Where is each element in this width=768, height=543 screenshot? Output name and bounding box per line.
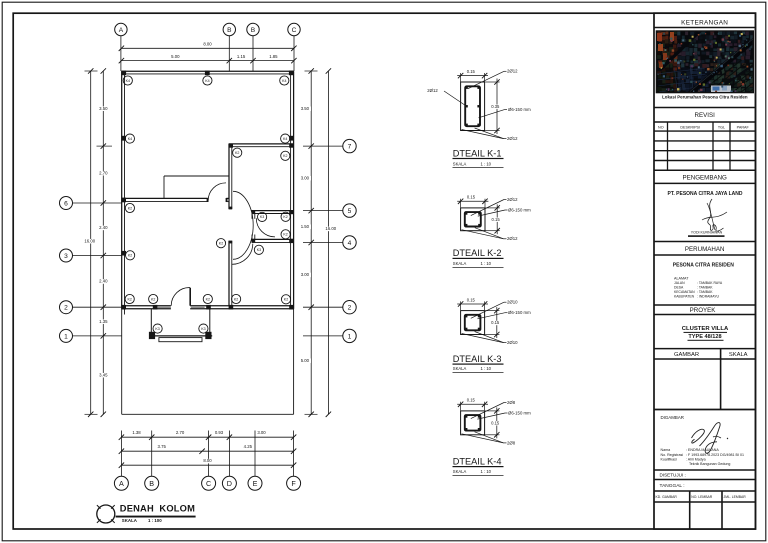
- column K4 at top wall / grid C: [289, 71, 294, 76]
- svg-text:3.50: 3.50: [99, 106, 108, 111]
- dimension line 5.00 / 1.15 / 1.85 (top): [121, 60, 294, 62]
- svg-text:1.38: 1.38: [132, 430, 141, 435]
- detail DTEAIL K-1: rebar dots (6 bars): [465, 87, 467, 89]
- left dimension extension stubs: [85, 70, 98, 72]
- svg-text:2Ø12: 2Ø12: [507, 197, 518, 202]
- grid bubble 7 (right): [343, 139, 356, 152]
- svg-text:TYPE 48/128: TYPE 48/128: [688, 334, 721, 340]
- leader lines from left bubbles: [73, 202, 122, 204]
- svg-text:SKALA: SKALA: [453, 469, 467, 474]
- door swing: hall double arc (ellipse): [233, 191, 253, 259]
- door swing: front door: [171, 288, 190, 306]
- svg-text:K3: K3: [201, 327, 205, 331]
- grid bubble 3 (left): [60, 249, 73, 262]
- north/compass symbol: [97, 505, 115, 523]
- map: green roof diagonal lines: [712, 60, 760, 106]
- stair/nook outline in left room: [164, 175, 229, 177]
- svg-text:2Ø10: 2Ø10: [507, 300, 518, 305]
- grid bubble D (bottom): [222, 476, 236, 490]
- svg-text:K3: K3: [155, 327, 159, 331]
- svg-text:K2: K2: [235, 151, 239, 155]
- svg-text:1.50: 1.50: [301, 224, 310, 229]
- svg-text:K2: K2: [151, 297, 155, 301]
- svg-text:1: 1: [64, 333, 68, 340]
- detail DTEAIL K-3: bottom bar label 2&#216;10: [462, 334, 504, 343]
- column K2 on front wall (right of door): [206, 305, 211, 310]
- svg-text:2.70: 2.70: [176, 430, 185, 435]
- gambar/skala divider: [720, 349, 722, 410]
- detail DTEAIL K-2: top dimension 0.15: [457, 200, 488, 202]
- svg-text:0.15: 0.15: [467, 398, 476, 403]
- door swing: grid-6 door into top-left room: [208, 183, 226, 201]
- grid bubble B (top, first): [223, 23, 235, 35]
- svg-text:K2: K2: [283, 154, 287, 158]
- svg-text:0.15: 0.15: [467, 69, 476, 74]
- svg-text:K3: K3: [257, 248, 261, 252]
- svg-text:TGL: TGL: [718, 126, 725, 130]
- door swing: bathroom door: [256, 218, 275, 237]
- detail DTEAIL K-2: rebar dots: [465, 212, 467, 214]
- column K2 left of hall wall lower cap: [216, 239, 225, 248]
- svg-text:3: 3: [64, 253, 68, 260]
- svg-text:1.15: 1.15: [237, 54, 246, 59]
- svg-text:0.15: 0.15: [491, 420, 500, 425]
- svg-text:K4: K4: [126, 79, 130, 83]
- grid bubble 4 (right): [343, 236, 356, 249]
- grid bubble B (bottom): [145, 476, 159, 490]
- title block outer box: [654, 13, 755, 529]
- svg-text:3.00: 3.00: [301, 272, 310, 277]
- svg-text:1.35: 1.35: [99, 319, 108, 324]
- svg-text:2Ø12: 2Ø12: [427, 88, 438, 93]
- detail DTEAIL K-4: right dimension 0.15: [496, 407, 498, 438]
- svg-text:TANGGAL :: TANGGAL :: [660, 483, 685, 489]
- detail DTEAIL K-1: concrete outline: [461, 82, 485, 131]
- grid bubble 6 (left): [60, 197, 73, 210]
- grid bubble C (bottom): [202, 476, 216, 490]
- left overall dimension line 16.00: [90, 71, 92, 414]
- svg-text:16.00: 16.00: [84, 238, 95, 243]
- wall: grid 6 interior (left room partition): [122, 197, 208, 199]
- wall: right exterior: [293, 71, 295, 309]
- wall: bathroom top (grid 5): [252, 210, 294, 212]
- svg-text:2Ø8: 2Ø8: [507, 400, 516, 405]
- svg-text:2: 2: [64, 305, 68, 312]
- svg-text:Ø6-150 mm: Ø6-150 mm: [508, 107, 531, 112]
- column K4 at top wall / grid A: [121, 71, 126, 76]
- svg-text:E: E: [253, 479, 258, 488]
- map: diagonal main road: [688, 36, 759, 95]
- svg-text:0.15: 0.15: [491, 320, 500, 325]
- detail DTEAIL K-3: right dimension 0.15: [496, 307, 498, 338]
- svg-text:K2: K2: [206, 297, 210, 301]
- map: navy field strip lines: [657, 64, 708, 96]
- svg-text:REVISI: REVISI: [695, 112, 716, 119]
- svg-text:2Ø12: 2Ø12: [507, 136, 518, 141]
- svg-text:K2: K2: [128, 206, 132, 210]
- svg-text:0.15: 0.15: [467, 297, 476, 302]
- svg-text:2Ø12: 2Ø12: [507, 236, 518, 241]
- svg-text:2.70: 2.70: [99, 170, 108, 175]
- grid bubble 1 (right): [343, 329, 356, 342]
- svg-text:4.25: 4.25: [244, 444, 253, 449]
- svg-text:: ENDRA MAULANA: : ENDRA MAULANA: [686, 448, 719, 452]
- svg-text:KD. GAMBAR: KD. GAMBAR: [656, 495, 678, 499]
- detail DTEAIL K-2: stirrup: [465, 212, 481, 226]
- svg-text:DTEAIL K-1: DTEAIL K-1: [453, 148, 502, 158]
- svg-text:SKALA: SKALA: [453, 161, 467, 166]
- svg-text:F: F: [291, 479, 296, 488]
- svg-text:1 : 10: 1 : 10: [481, 366, 492, 371]
- grid bubble A (bottom): [114, 476, 128, 490]
- wall notch below left front corner: [124, 309, 126, 315]
- svg-text:2.40: 2.40: [99, 225, 108, 230]
- svg-text:SKALA: SKALA: [729, 352, 748, 358]
- detail DTEAIL K-2: bottom bar label 2&#216;12: [462, 230, 504, 239]
- svg-text:DTEAIL K-4: DTEAIL K-4: [453, 456, 502, 466]
- detail DTEAIL K-4: rebar dots: [465, 415, 467, 417]
- leader lines from right bubbles: [303, 145, 343, 147]
- map: scatter noise dots: [658, 33, 753, 93]
- detail DTEAIL K-1: top bar label 2&#216;12: [468, 71, 504, 89]
- wall: hallway vertical lower segment (grid B): [228, 241, 230, 306]
- svg-text:K4: K4: [205, 79, 209, 83]
- column K2 at left front corner: [121, 305, 126, 310]
- right overall dimension line 16.00: [327, 71, 329, 414]
- svg-text:K2: K2: [127, 297, 131, 301]
- svg-text:NO. LEMBAR: NO. LEMBAR: [691, 495, 712, 499]
- svg-text:K2: K2: [284, 298, 288, 302]
- svg-text:K4: K4: [128, 137, 132, 141]
- svg-text:1: 1: [348, 333, 352, 340]
- map: bright red roofs re-accent: [657, 33, 662, 41]
- svg-text:B: B: [149, 479, 154, 488]
- svg-text:DESA: DESA: [674, 285, 684, 289]
- grid bubble E (bottom): [248, 476, 262, 490]
- svg-text:7: 7: [348, 143, 352, 150]
- svg-text:Nama: Nama: [661, 448, 671, 452]
- svg-text:JALAN: JALAN: [674, 281, 685, 285]
- column K2 at left wall / grid 6: [121, 198, 126, 203]
- column K2 at hall wall / front wall junction: [229, 305, 234, 310]
- svg-text:K4: K4: [282, 79, 286, 83]
- svg-text:DESKRIPSI: DESKRIPSI: [680, 126, 700, 130]
- right dimension values: [299, 106, 311, 111]
- column K2 at grid-7 wall left end: [229, 144, 233, 148]
- wall end caps at grid-6 door opening: [207, 198, 209, 202]
- detail DTEAIL K-1: right dimension 0.35: [496, 79, 498, 135]
- extension lines from top bubbles: [120, 36, 122, 71]
- svg-text:1 : 10: 1 : 10: [481, 469, 492, 474]
- svg-text:DIGAMBAR: DIGAMBAR: [661, 415, 684, 420]
- svg-text:Ø6-150 mm: Ø6-150 mm: [508, 310, 531, 315]
- svg-text:0.35: 0.35: [491, 104, 500, 109]
- column K4 on right wall: [289, 136, 294, 141]
- svg-text:0.15: 0.15: [467, 195, 476, 200]
- column K3 at porch left: [153, 324, 162, 333]
- detail DTEAIL K-1: stirrup label: [479, 110, 505, 118]
- svg-text:Lokasi Perumahan Pesona Cit: Lokasi Perumahan Pesona Citra Residen: [662, 94, 748, 99]
- svg-text:3.45: 3.45: [99, 372, 108, 377]
- svg-text:SKALA: SKALA: [122, 518, 138, 523]
- svg-text:8.00: 8.00: [203, 458, 212, 463]
- detail DTEAIL K-3: stirrup label: [477, 313, 505, 319]
- detail DTEAIL K-3: top bar label 2&#216;10: [471, 302, 504, 318]
- svg-text:5.00: 5.00: [171, 54, 180, 59]
- grid bubble 5 (right): [343, 204, 356, 217]
- detail DTEAIL K-3: stirrup: [465, 315, 481, 331]
- svg-text:: INDRAMAYU: : INDRAMAYU: [697, 295, 720, 299]
- map: mosaic cells: [657, 31, 754, 97]
- detail DTEAIL K-3: concrete outline: [461, 311, 485, 335]
- svg-text:2Ø8: 2Ø8: [507, 440, 516, 445]
- detail DTEAIL K-1: stirrup: [465, 86, 480, 126]
- svg-text:0.15: 0.15: [492, 217, 501, 222]
- svg-text:PT. PESONA CITRA JAYA LAND: PT. PESONA CITRA JAYA LAND: [668, 191, 743, 197]
- svg-text:A: A: [119, 479, 124, 488]
- svg-text:0.93: 0.93: [215, 430, 224, 435]
- svg-text:5: 5: [348, 208, 352, 215]
- column K3 at bathroom top-left: [258, 212, 267, 221]
- wall caps bathroom left: [252, 210, 256, 214]
- detail DTEAIL K-2: top bar label 2&#216;12: [471, 200, 504, 216]
- detail DTEAIL K-3: top dimension 0.15: [457, 303, 488, 305]
- svg-text:2Ø10: 2Ø10: [507, 340, 518, 345]
- svg-text:K2: K2: [234, 297, 238, 301]
- sheet number column dividers: [689, 491, 691, 529]
- left segment dimension line: [102, 71, 104, 414]
- svg-text:: F 1993.68978.2023 DG/4981 BI: : F 1993.68978.2023 DG/4981 BI 01: [686, 453, 744, 457]
- column K2 at right wall / grid 7: [289, 144, 294, 148]
- wall: top exterior (grid A-C): [121, 70, 294, 72]
- detail DTEAIL K-2: right dimension 0.15: [496, 204, 498, 234]
- detail DTEAIL K-1: bottom bar label 2&#216;12: [462, 130, 504, 139]
- svg-text:No. Registrasi: No. Registrasi: [661, 453, 684, 457]
- svg-text:DENAH KOLOM: DENAH KOLOM: [120, 503, 195, 513]
- grid bubble B (top, second): [247, 23, 259, 35]
- svg-text:B: B: [251, 27, 256, 34]
- svg-text:6: 6: [64, 200, 68, 207]
- svg-text:B: B: [227, 27, 232, 34]
- svg-text:D: D: [227, 479, 232, 488]
- grid bubble C (top): [288, 23, 300, 35]
- wall: left exterior: [121, 71, 123, 309]
- detail DTEAIL K-4: concrete outline: [461, 411, 485, 435]
- grid bubble 1 (left): [60, 329, 73, 342]
- dimension line 8.00 (top overall): [121, 47, 294, 49]
- detail DTEAIL K-2: stirrup label: [478, 210, 505, 216]
- svg-text:PENGEMBANG: PENGEMBANG: [683, 175, 728, 182]
- right segment dimension line: [310, 71, 312, 414]
- column K2 on front wall (left of door): [153, 305, 158, 310]
- bottom dimension line row 1: 1.38/2.70/0.93/3.00: [121, 436, 293, 438]
- svg-text:PESONA CITRA RESIDEN: PESONA CITRA RESIDEN: [673, 262, 734, 268]
- porch front edge: [149, 335, 212, 337]
- svg-text:3.50: 3.50: [301, 106, 310, 111]
- revision table empty rows: [654, 140, 755, 142]
- svg-text:2Ø12: 2Ø12: [507, 69, 518, 74]
- svg-text:K2: K2: [219, 242, 223, 246]
- column K2 at left wall / grid 3: [121, 251, 126, 256]
- wall: bathroom left stubs with door opening: [251, 214, 253, 219]
- detail DTEAIL K-2: concrete outline: [461, 208, 485, 231]
- svg-text:KETERANGAN: KETERANGAN: [681, 20, 728, 27]
- svg-text:C: C: [206, 479, 211, 488]
- column K4 at top wall midspan: [205, 71, 210, 76]
- svg-text:: Ahli Madya: : Ahli Madya: [686, 457, 706, 461]
- svg-text:JML. LEMBAR: JML. LEMBAR: [724, 495, 747, 499]
- svg-text:1 : 10: 1 : 10: [481, 161, 492, 166]
- svg-text:K3: K3: [260, 215, 264, 219]
- svg-text:K2: K2: [283, 233, 287, 237]
- svg-text:SKALA: SKALA: [453, 261, 467, 266]
- column K3 at bathroom bottom-left: [254, 245, 263, 254]
- svg-text:Ø6-150 mm: Ø6-150 mm: [508, 410, 531, 415]
- svg-text:C: C: [292, 27, 297, 34]
- svg-text:5.00: 5.00: [301, 358, 310, 363]
- entry step: [159, 338, 202, 342]
- right dimension extension stubs: [305, 70, 318, 72]
- column K2 at right wall / grid 4: [289, 239, 294, 243]
- svg-text:A: A: [119, 27, 124, 34]
- svg-text:K2: K2: [283, 215, 287, 219]
- svg-text:K2: K2: [128, 254, 132, 258]
- svg-text:PERUMAHAN: PERUMAHAN: [685, 246, 725, 253]
- svg-text:: TAMBAK: : TAMBAK: [697, 285, 713, 289]
- detail DTEAIL K-4: stirrup label: [477, 413, 505, 419]
- bottom dimension line row 3: 8.00 overall: [121, 464, 293, 466]
- grid bubble A (top): [115, 23, 127, 35]
- svg-text:16.00: 16.00: [325, 226, 336, 231]
- grid bubble F (bottom): [287, 476, 301, 490]
- column K4 on left wall: [121, 136, 126, 141]
- svg-text:4: 4: [348, 240, 352, 247]
- bottom extension lines: [120, 431, 122, 477]
- column K2 at right wall / grid 5: [289, 210, 294, 214]
- svg-text:YODI KURNIAWAN: YODI KURNIAWAN: [691, 230, 723, 234]
- svg-text:3.00: 3.00: [257, 430, 266, 435]
- title underline: [116, 516, 196, 518]
- bottom dimension line row 2: 3.75/4.25: [121, 450, 293, 452]
- svg-text:PARAF: PARAF: [737, 126, 750, 130]
- column K2 at right front corner: [289, 305, 294, 310]
- svg-text:CLUSTER VILLA: CLUSTER VILLA: [682, 326, 729, 332]
- wall cap at hall opening bottom: [229, 241, 233, 244]
- svg-text:KABUPATEN: KABUPATEN: [674, 295, 695, 299]
- revision table column dividers: [667, 122, 669, 170]
- detail DTEAIL K-4: stirrup: [465, 415, 481, 431]
- svg-text:DTEAIL K-3: DTEAIL K-3: [453, 354, 502, 364]
- grid bubble 2 (right): [343, 301, 356, 314]
- svg-text:2.40: 2.40: [99, 279, 108, 284]
- wall cap at hall opening top: [229, 207, 233, 210]
- svg-text:SKALA: SKALA: [453, 366, 467, 371]
- svg-text:1.85: 1.85: [269, 54, 278, 59]
- detail DTEAIL K-4: top dimension 0.15: [457, 403, 488, 405]
- svg-text:1 : 10: 1 : 10: [481, 261, 492, 266]
- wall: front exterior (grid 2) with door/window openings: [122, 305, 171, 307]
- svg-text:3.00: 3.00: [301, 175, 310, 180]
- wall: bathroom bottom (grid 4): [252, 238, 294, 240]
- column K3 at porch right: [199, 324, 208, 333]
- wall: hallway vertical upper segment (grid B): [228, 144, 230, 209]
- front door leaf: [189, 288, 191, 306]
- map: white landmark building: [711, 86, 731, 93]
- svg-text:DTEAIL K-2: DTEAIL K-2: [453, 248, 502, 258]
- svg-text:Ø6-150 mm: Ø6-150 mm: [508, 207, 531, 212]
- svg-text:1 : 100: 1 : 100: [148, 518, 162, 523]
- grid bubble 2 (left): [60, 301, 73, 314]
- svg-text:8.00: 8.00: [203, 42, 212, 47]
- svg-text:Teknik Bangunan Gedung: Teknik Bangunan Gedung: [689, 462, 730, 466]
- svg-text:3.75: 3.75: [158, 444, 167, 449]
- developer signature (Yodi): [708, 199, 724, 231]
- detail DTEAIL K-4: bottom bar label 2&#216;8: [462, 434, 504, 443]
- svg-text:K4: K4: [283, 137, 287, 141]
- site boundary lines: [121, 309, 123, 414]
- detail DTEAIL K-3: rebar dots: [465, 315, 467, 317]
- porch corner columns (filled): [149, 332, 155, 339]
- drafter signature (Efe): [692, 429, 705, 443]
- svg-text:2: 2: [348, 305, 352, 312]
- svg-text:PROYEK: PROYEK: [690, 307, 717, 314]
- porch side walls: [150, 309, 152, 336]
- svg-text:DISETUJUI :: DISETUJUI :: [660, 473, 686, 478]
- svg-text:GAMBAR: GAMBAR: [674, 352, 699, 358]
- svg-text:: TAMBAK: : TAMBAK: [697, 290, 713, 294]
- left dimension values: [97, 106, 109, 111]
- wall: grid 7 interior (top-right bedroom): [229, 143, 294, 145]
- detail DTEAIL K-1: top dimension 0.15: [457, 75, 488, 77]
- svg-text:Kualifikasi: Kualifikasi: [661, 457, 677, 461]
- svg-text:KECAMATAN: KECAMATAN: [674, 290, 695, 294]
- map: dark overall glaze: [656, 31, 754, 93]
- detail DTEAIL K-4: top bar label 2&#216;8: [471, 403, 504, 419]
- door swing: bedroom 2 door: [232, 244, 253, 265]
- window sill lines on front wall: [158, 306, 171, 308]
- svg-text:NO: NO: [658, 126, 664, 130]
- svg-text:: TAMBAK RAYA: : TAMBAK RAYA: [697, 281, 723, 285]
